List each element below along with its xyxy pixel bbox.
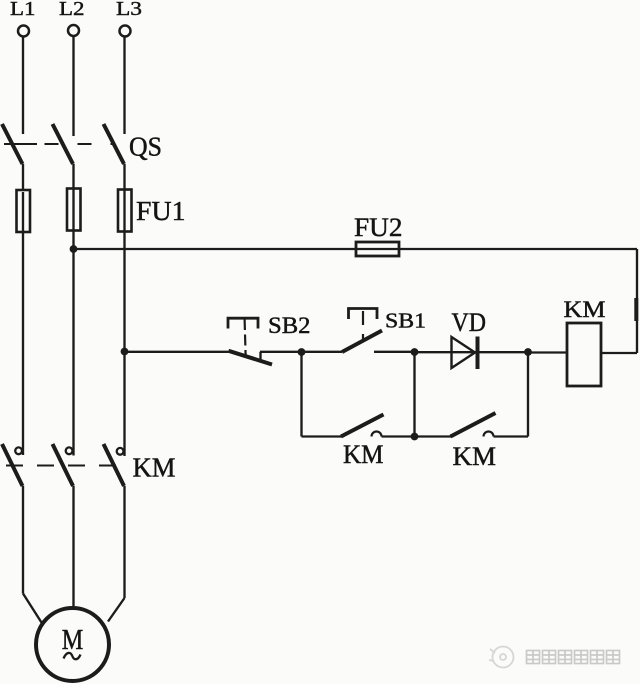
- terminal circle L1: [18, 26, 29, 37]
- svg-text:QS: QS: [129, 132, 162, 162]
- svg-text:SB1: SB1: [385, 308, 426, 332]
- wire QS1 to FU1a: [22, 164, 24, 191]
- wire QS3 to FU1c: [123, 164, 125, 191]
- contactor coil KM: [567, 323, 601, 386]
- svg-text:KM: KM: [564, 297, 606, 323]
- svg-text:M: M: [62, 625, 84, 656]
- terminal circle L2: [68, 25, 79, 36]
- diode VD cathode bar: [476, 337, 480, 370]
- wire node B to diode: [415, 351, 478, 353]
- wire node A to SB1: [302, 351, 343, 353]
- svg-text:L2: L2: [59, 0, 85, 20]
- wire KM2 to motor: [72, 486, 74, 608]
- wire lower rail segment 1: [302, 435, 342, 437]
- diode VD triangle: [452, 337, 476, 368]
- svg-text:KM: KM: [343, 440, 384, 469]
- node C: [524, 348, 532, 356]
- motor tilde: [64, 653, 81, 659]
- fuse FU1 pole 3: [118, 190, 132, 232]
- wire lower rail segment 3: [494, 435, 529, 437]
- node D on lower rail: [411, 433, 419, 441]
- push button SB2 bracket: [228, 318, 258, 328]
- wire diode to node C: [479, 351, 528, 353]
- wire L1 fuse to KM contact: [22, 192, 24, 455]
- KM auxiliary contact 2 blade: [451, 413, 496, 437]
- svg-text:L3: L3: [116, 0, 142, 20]
- KM main contact pole 2 blade: [53, 444, 74, 486]
- wire QS2 to FU1b: [72, 164, 74, 190]
- KM auxiliary contact 2 fixed contact arc: [484, 432, 494, 437]
- KM auxiliary contact 1 blade: [341, 415, 384, 437]
- wire motor lead 1 diagonal: [23, 594, 42, 623]
- svg-text:VD: VD: [452, 308, 487, 337]
- wire SB1 to node B: [374, 351, 415, 353]
- switch QS pole 3 blade: [104, 124, 125, 164]
- wire lower rail segment 2: [382, 435, 452, 437]
- wire L3 lead: [123, 37, 125, 134]
- svg-text:FU1: FU1: [136, 196, 186, 226]
- wire drop from node A: [300, 352, 302, 437]
- SB1 stem dashed: [362, 311, 364, 341]
- KM main contact pole 2 fixed arc: [66, 447, 73, 454]
- SB2 fixed contact tick: [259, 352, 261, 360]
- wire SB2 to node A: [260, 351, 302, 353]
- fuse FU1 pole 1: [17, 190, 31, 232]
- fuse FU1 pole 2: [67, 189, 81, 231]
- switch QS pole 2 blade: [53, 124, 74, 164]
- svg-text:KM: KM: [453, 442, 497, 471]
- push button SB1 bracket: [349, 309, 378, 320]
- node on L3 feeding control rail: [121, 348, 129, 356]
- node A: [298, 348, 306, 356]
- wire L3 node to SB2: [125, 351, 229, 353]
- KM main linkage dashed line: [6, 465, 128, 467]
- watermark logo: [489, 647, 514, 668]
- QS linkage dashed line: [4, 143, 37, 145]
- wire coil to right edge: [601, 352, 637, 354]
- wire L1 lead: [22, 37, 24, 134]
- svg-text:L1: L1: [10, 0, 36, 20]
- motor M circle: [36, 608, 109, 681]
- wire node C to coil: [528, 351, 567, 353]
- wire L2 fuse to KM contact: [72, 190, 74, 456]
- wire KM3 to motor: [123, 486, 125, 598]
- wire KM1 to motor: [22, 486, 24, 594]
- wire L3 fuse to KM contact: [123, 191, 125, 456]
- KM auxiliary contact 1 fixed contact arc: [372, 432, 382, 437]
- SB2 blade: [229, 351, 273, 365]
- wire L2 lead: [72, 36, 74, 136]
- wire drop from node C: [527, 352, 529, 437]
- svg-text:SB2: SB2: [268, 313, 311, 339]
- KM main contact pole 3 fixed arc: [117, 448, 124, 455]
- wire drop from node B: [413, 352, 415, 437]
- svg-text:FU2: FU2: [354, 213, 403, 242]
- terminal circle L3: [120, 26, 131, 37]
- KM main contact pole 3 blade: [104, 444, 125, 486]
- node on L2 feeding control circuit: [70, 245, 78, 253]
- svg-text:KM: KM: [133, 453, 176, 483]
- watermark text: [527, 651, 620, 664]
- fuse FU2: [356, 242, 399, 256]
- wire control feed top: [74, 248, 638, 250]
- SB2 stem dashed: [245, 319, 246, 355]
- wire right edge drop: [636, 249, 638, 353]
- wire motor lead 3 diagonal: [108, 598, 125, 622]
- KM main contact pole 1 blade: [2, 444, 23, 486]
- switch QS pole 1 blade: [2, 124, 23, 164]
- node B: [411, 348, 419, 356]
- SB1 blade: [342, 331, 382, 353]
- KM main contact pole 1 fixed arc: [15, 447, 22, 454]
